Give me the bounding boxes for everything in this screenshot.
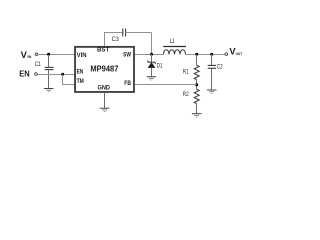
wire VIN to IC (38, 54, 75, 56)
junction dot C2 node (210, 53, 213, 56)
svg-text:EN: EN (19, 69, 30, 78)
svg-text:C2: C2 (217, 63, 223, 70)
svg-text:C1: C1 (35, 61, 41, 68)
wire D1 bottom lead (151, 68, 153, 77)
inductor L1 (163, 46, 186, 48)
junction dot FB node (195, 83, 198, 86)
node VOUT terminal (225, 53, 228, 56)
capacitor C1 (45, 66, 54, 68)
junction dot SW node (150, 53, 153, 56)
junction dot VIN/C1 (47, 53, 50, 56)
wire D1 top lead (151, 54, 153, 62)
svg-text:IN: IN (27, 54, 31, 59)
svg-text:V: V (21, 50, 27, 60)
svg-text:C3: C3 (112, 36, 119, 43)
wire TM branch (63, 75, 76, 85)
svg-text:R2: R2 (183, 91, 189, 98)
wire BST horizontal left (104, 32, 123, 34)
junction dot EN/TM (61, 73, 64, 76)
ground C2 (207, 90, 217, 93)
svg-text:R1: R1 (183, 68, 189, 75)
resistor R1 (194, 65, 199, 79)
diode D1 (schottky) (148, 60, 155, 64)
svg-text:OUT: OUT (236, 52, 243, 56)
node VIN terminal (35, 53, 38, 56)
wire SW to L1 (135, 54, 164, 56)
wire BST horizontal right (126, 32, 152, 34)
wire C1 bottom lead (48, 70, 50, 89)
svg-text:MP9487: MP9487 (90, 64, 118, 73)
svg-text:L1: L1 (170, 38, 175, 45)
capacitor C3 (122, 29, 124, 37)
wire R2 bottom lead (196, 104, 198, 114)
node EN terminal (35, 73, 38, 76)
wire BST up (104, 33, 106, 47)
svg-text:FB: FB (124, 80, 131, 87)
capacitor C2 (208, 64, 216, 66)
wire L1 to VOUT (186, 54, 226, 56)
svg-text:TM: TM (77, 78, 84, 85)
ground R2 (192, 114, 202, 117)
resistor R2 (194, 89, 199, 103)
ground C1 (44, 89, 54, 92)
wire C2 bottom lead (211, 68, 213, 90)
svg-text:GND: GND (98, 85, 111, 92)
wire C1 top lead (48, 55, 50, 68)
ground D1 (147, 77, 157, 80)
wire R1 bottom lead (196, 80, 198, 90)
wire C2 top lead (211, 54, 213, 65)
ground IC GND (100, 108, 110, 111)
op-amp U1 MP9487 IC body (75, 47, 134, 92)
svg-text:BST: BST (97, 47, 110, 54)
wire R1 top lead (196, 54, 198, 65)
svg-text:EN: EN (77, 68, 84, 75)
svg-text:D1: D1 (157, 62, 163, 69)
svg-text:SW: SW (123, 52, 131, 59)
junction dot R1 node (195, 53, 198, 56)
svg-text:VIN: VIN (77, 52, 87, 59)
wire down to SW node (151, 33, 153, 55)
wire FB (135, 84, 197, 86)
wire GND pin down (104, 93, 106, 108)
wire EN to IC (37, 74, 75, 76)
